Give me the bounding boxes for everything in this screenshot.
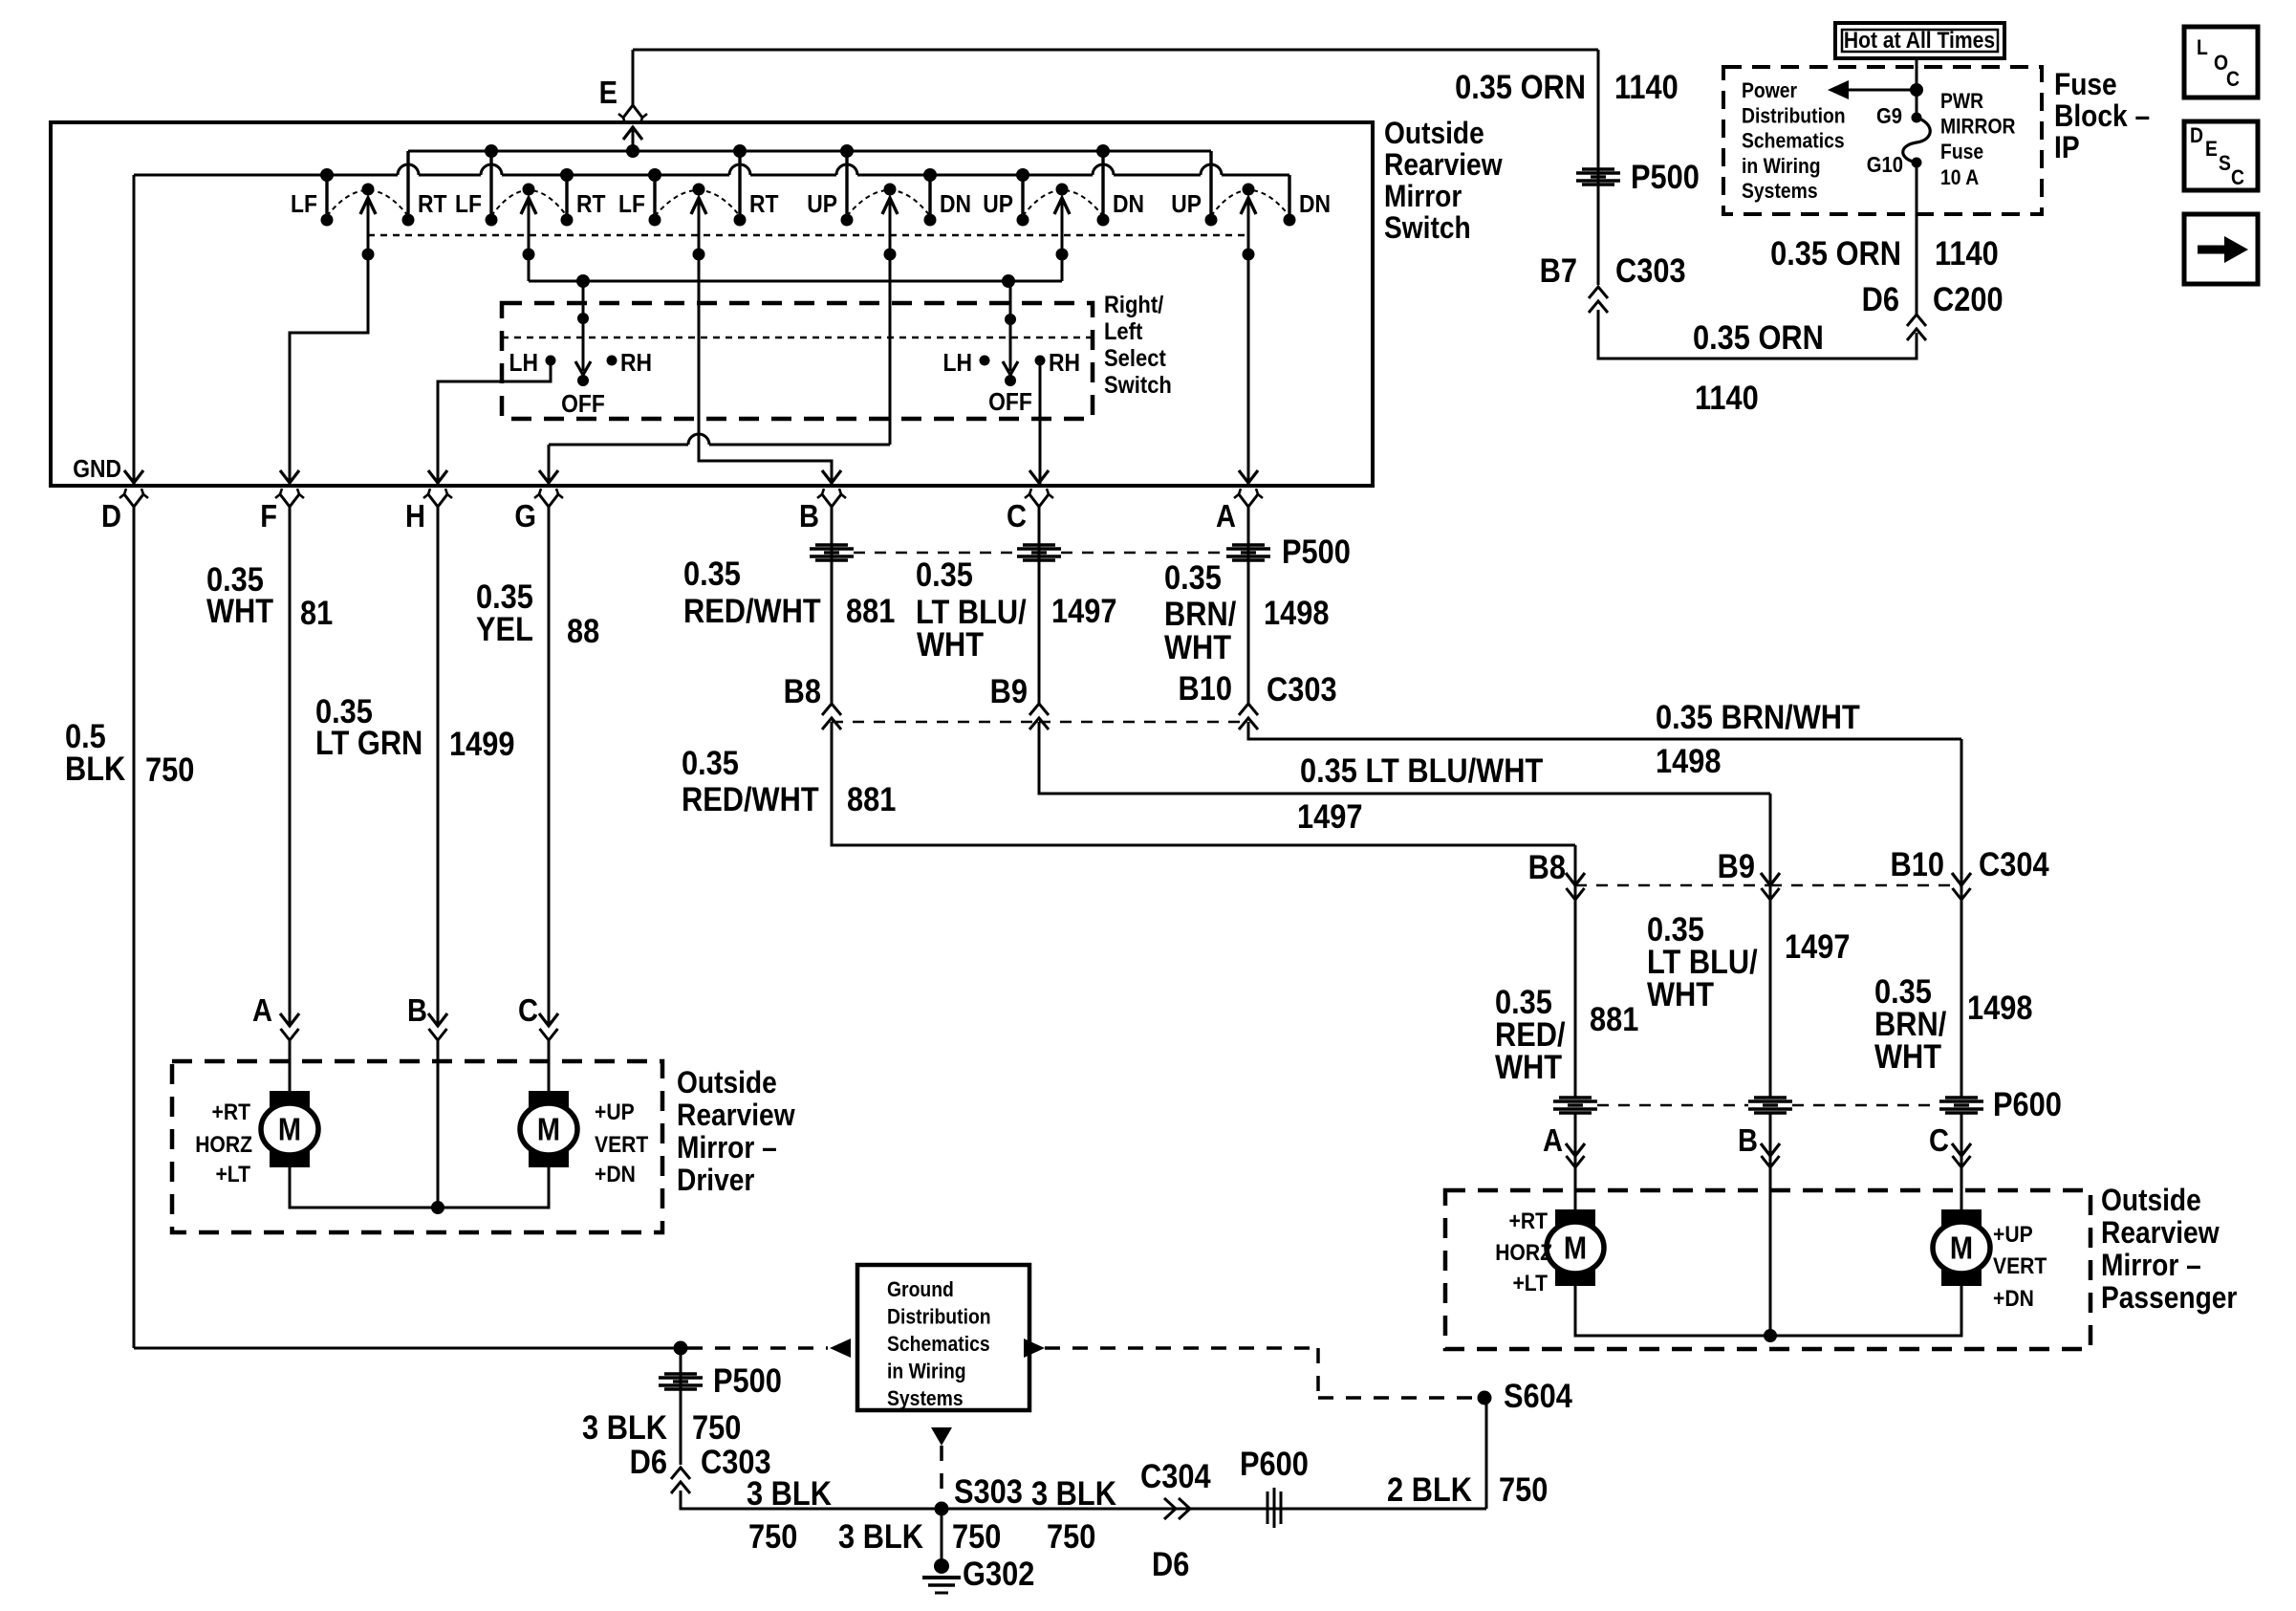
dashed mechanical linkage line bbox=[368, 234, 1248, 237]
svg-text:S604: S604 bbox=[1504, 1377, 1573, 1414]
svg-text:L: L bbox=[2197, 36, 2208, 59]
svg-text:Mirror –: Mirror – bbox=[2101, 1249, 2201, 1282]
wire: S303 to G302 bbox=[941, 1509, 943, 1560]
svg-text:B: B bbox=[407, 992, 427, 1028]
svg-text:Outside: Outside bbox=[2101, 1184, 2201, 1217]
connector P500 grommet on A bbox=[1232, 543, 1265, 546]
pin H: arrow at box bottom bbox=[428, 470, 447, 483]
fuse PWR MIRROR 10A element bbox=[1903, 118, 1931, 163]
svg-text:Block –: Block – bbox=[2054, 99, 2150, 133]
junction dot S303 bbox=[935, 1502, 949, 1516]
junction dot S604 bbox=[1478, 1391, 1492, 1405]
svg-text:88: 88 bbox=[567, 612, 599, 649]
junction dot hot feed bbox=[1910, 83, 1923, 97]
svg-text:GND: GND bbox=[73, 456, 121, 484]
svg-text:750: 750 bbox=[1499, 1470, 1548, 1508]
svg-text:Mirror –: Mirror – bbox=[677, 1131, 777, 1165]
svg-text:RT: RT bbox=[576, 191, 606, 219]
svg-text:0.35 ORN: 0.35 ORN bbox=[1770, 234, 1901, 272]
triangle arrow left bbox=[830, 1339, 851, 1358]
connector P500 grommet ORN bbox=[1582, 167, 1614, 170]
svg-text:Systems: Systems bbox=[887, 1387, 964, 1410]
svg-text:0.35: 0.35 bbox=[1164, 558, 1222, 596]
svg-text:HORZ: HORZ bbox=[195, 1132, 252, 1158]
svg-text:OFF: OFF bbox=[988, 389, 1032, 417]
wire: passenger C wire below P600 bbox=[1960, 1113, 1963, 1209]
motor M3 passenger horizontal bbox=[1555, 1209, 1595, 1286]
svg-text:3 BLK: 3 BLK bbox=[1031, 1474, 1116, 1512]
switch pair 3: LF contact bar bbox=[653, 175, 656, 220]
svg-text:VERT: VERT bbox=[1993, 1253, 2047, 1279]
svg-text:RT: RT bbox=[749, 191, 779, 219]
svg-text:750: 750 bbox=[145, 751, 194, 788]
svg-text:B: B bbox=[799, 498, 819, 533]
svg-text:Schematics: Schematics bbox=[887, 1333, 990, 1356]
switch pair 4: wiper pivot arrow bbox=[884, 184, 897, 196]
svg-text:750: 750 bbox=[692, 1408, 741, 1446]
svg-text:A: A bbox=[252, 992, 272, 1028]
svg-text:G: G bbox=[514, 498, 536, 533]
pin G: arrow at box bottom bbox=[539, 470, 558, 483]
wire: B8 vertical to P600 bbox=[1574, 845, 1577, 1098]
switch pair 2: RT contact bar bbox=[565, 175, 568, 220]
svg-text:3 BLK: 3 BLK bbox=[747, 1474, 832, 1512]
switch pair 4: DN contact bar bbox=[928, 175, 931, 220]
svg-text:P500: P500 bbox=[1631, 158, 1700, 195]
svg-text:VERT: VERT bbox=[595, 1132, 648, 1158]
svg-text:WHT: WHT bbox=[206, 592, 273, 629]
svg-text:1498: 1498 bbox=[1264, 594, 1329, 631]
svg-text:M: M bbox=[1950, 1230, 1973, 1266]
connector C303 chevrons B7 bbox=[1589, 287, 1608, 298]
svg-text:Driver: Driver bbox=[677, 1164, 755, 1197]
svg-text:Select: Select bbox=[1104, 345, 1166, 372]
svg-text:+LT: +LT bbox=[1512, 1271, 1548, 1296]
svg-text:81: 81 bbox=[300, 594, 333, 631]
pin H: connector fork bbox=[428, 494, 438, 507]
wire: pivot5 shaft down to select common line bbox=[1061, 198, 1064, 281]
svg-text:750: 750 bbox=[952, 1517, 1001, 1555]
svg-text:G9: G9 bbox=[1876, 103, 1902, 129]
motor M4 passenger vertical bbox=[1941, 1209, 1982, 1286]
svg-text:0.35: 0.35 bbox=[682, 744, 739, 781]
svg-text:Rearview: Rearview bbox=[2101, 1216, 2220, 1250]
svg-text:P500: P500 bbox=[713, 1361, 782, 1399]
svg-text:BLK: BLK bbox=[65, 750, 125, 787]
svg-text:C: C bbox=[2226, 68, 2240, 91]
switch pair 1: RT contact bar bbox=[406, 151, 409, 220]
svg-text:UP: UP bbox=[1171, 191, 1202, 219]
svg-text:WHT: WHT bbox=[1874, 1037, 1941, 1075]
svg-text:WHT: WHT bbox=[1647, 975, 1714, 1012]
svg-text:Distribution: Distribution bbox=[887, 1305, 991, 1328]
connector P500 grommet on B bbox=[815, 543, 848, 546]
svg-text:3 BLK: 3 BLK bbox=[838, 1517, 923, 1555]
svg-text:MIRROR: MIRROR bbox=[1940, 115, 2016, 138]
svg-text:C: C bbox=[1929, 1122, 1949, 1158]
wire: ORN vertical to fuse block G10 bbox=[1916, 214, 1918, 315]
svg-text:A: A bbox=[1216, 498, 1236, 533]
wire: BRN WHT 1498 run to B10 C304 bbox=[1248, 722, 1961, 739]
svg-text:Systems: Systems bbox=[1742, 180, 1818, 203]
svg-text:B9: B9 bbox=[990, 672, 1028, 709]
switch pair 1: dashed contact arc bbox=[327, 190, 408, 216]
wire: ORN jog to fuse block bbox=[1598, 310, 1917, 359]
C304 arrows B9 bbox=[1761, 873, 1780, 885]
svg-text:D6: D6 bbox=[630, 1443, 667, 1480]
pin F: arrow at box bottom bbox=[280, 470, 299, 483]
wire: 0.35 ORN from top run down through P500 bbox=[1597, 50, 1600, 285]
svg-text:Rearview: Rearview bbox=[1384, 148, 1503, 182]
svg-text:F: F bbox=[260, 498, 277, 533]
svg-text:750: 750 bbox=[1047, 1517, 1095, 1555]
svg-text:in Wiring: in Wiring bbox=[887, 1360, 966, 1382]
svg-text:+RT: +RT bbox=[1509, 1208, 1549, 1234]
connector C303 chevrons D6 ground bbox=[671, 1468, 690, 1479]
wire: passenger A wire below P600 bbox=[1574, 1113, 1577, 1209]
wire: E exit vertical and top run bbox=[632, 50, 635, 105]
svg-text:B8: B8 bbox=[784, 672, 821, 709]
svg-text:B7: B7 bbox=[1540, 251, 1577, 289]
passenger pin B: arrow and chevron bbox=[1761, 1143, 1780, 1156]
wire: driver motors common link bbox=[290, 1167, 549, 1208]
switch pair 5: DN contact bar bbox=[1101, 151, 1104, 220]
svg-text:LF: LF bbox=[291, 191, 317, 219]
wire: pivot3 shaft to B exit bbox=[699, 198, 832, 484]
svg-text:Switch: Switch bbox=[1384, 211, 1471, 245]
svg-text:Fuse: Fuse bbox=[1940, 141, 1983, 163]
wire: pivot6 shaft to A exit bbox=[1247, 198, 1250, 484]
box: Outside Rearview Mirror Switch outline bbox=[51, 122, 1373, 486]
pin D: connector fork bbox=[124, 494, 134, 507]
svg-text:2 BLK: 2 BLK bbox=[1387, 1470, 1472, 1508]
arrow at E into box top bbox=[623, 127, 642, 140]
switch pair 3: RT contact bar bbox=[738, 151, 741, 220]
connector P500 grommet on C bbox=[1023, 543, 1055, 546]
wire: left select LH to H exit bbox=[438, 365, 551, 484]
switch pair 2: dashed contact arc bbox=[491, 190, 567, 216]
switch pair 5: UP contact bar bbox=[1021, 175, 1024, 220]
svg-text:10 A: 10 A bbox=[1940, 166, 1979, 189]
wire: hot feed into fuse block bbox=[1916, 58, 1918, 118]
connector C303 chevrons B8 bbox=[822, 704, 841, 715]
dashed line C304 row bbox=[1575, 884, 1770, 887]
svg-text:C200: C200 bbox=[1933, 280, 2004, 317]
wire: bus1 horizontal y=158 bbox=[408, 150, 1211, 153]
wire: G10 to fuse box bottom bbox=[1916, 163, 1918, 216]
svg-text:+UP: +UP bbox=[595, 1099, 635, 1125]
svg-text:+UP: +UP bbox=[1993, 1222, 2033, 1248]
svg-text:M: M bbox=[1564, 1230, 1587, 1266]
box: Hot at All Times double box bbox=[1835, 23, 2004, 58]
pin A: connector fork bbox=[1239, 494, 1248, 507]
wire: pin wire x=1306 from box to C303 bbox=[1247, 507, 1250, 704]
junction dot at P500 ground bbox=[674, 1341, 688, 1356]
svg-text:G302: G302 bbox=[963, 1555, 1034, 1592]
dashed ground distribution link left bbox=[687, 1346, 828, 1350]
svg-text:WHT: WHT bbox=[1164, 628, 1231, 665]
left select: LH contact bbox=[546, 356, 556, 366]
wire: B9 vertical to P600 bbox=[1769, 794, 1772, 1098]
svg-text:Fuse: Fuse bbox=[2054, 68, 2117, 101]
wire: LT BLU WHT 1497 run to B9 C304 bbox=[1039, 722, 1770, 794]
svg-text:B9: B9 bbox=[1718, 847, 1755, 884]
svg-text:LF: LF bbox=[618, 191, 645, 219]
svg-text:881: 881 bbox=[847, 780, 896, 817]
svg-text:1497: 1497 bbox=[1051, 592, 1116, 629]
wire: H 1499 down bbox=[437, 507, 440, 1024]
svg-text:Right/: Right/ bbox=[1104, 292, 1164, 318]
svg-text:G10: G10 bbox=[1867, 152, 1903, 178]
svg-text:PWR: PWR bbox=[1940, 90, 1983, 113]
svg-text:D6: D6 bbox=[1862, 280, 1899, 317]
pin B: arrow at box bottom bbox=[822, 470, 841, 483]
switch pair 6: wiper pivot arrow bbox=[1243, 184, 1255, 196]
svg-text:+RT: +RT bbox=[212, 1099, 251, 1125]
svg-text:+DN: +DN bbox=[595, 1162, 636, 1187]
node G10 dot bbox=[1912, 158, 1922, 168]
wire: B10 vertical to P600 bbox=[1960, 739, 1963, 1098]
svg-text:D: D bbox=[101, 498, 121, 533]
switch pair 1: wiper pivot arrow bbox=[362, 184, 375, 196]
svg-text:0.35 ORN: 0.35 ORN bbox=[1455, 68, 1586, 105]
box: Right/Left Select Switch dashed outline bbox=[502, 303, 1093, 419]
wire: pivot1 shaft to F exit bbox=[290, 198, 368, 484]
svg-text:Switch: Switch bbox=[1104, 372, 1172, 399]
wire: passenger B wire below P600 bbox=[1769, 1113, 1772, 1336]
svg-text:Distribution: Distribution bbox=[1742, 104, 1846, 127]
svg-text:Mirror: Mirror bbox=[1384, 180, 1462, 213]
switch pair 6: UP contact bar bbox=[1209, 151, 1212, 220]
wire: D 750 down bbox=[133, 507, 136, 1348]
svg-text:1498: 1498 bbox=[1656, 742, 1721, 779]
driver mirror pin C: arrow and chevron bbox=[539, 1013, 558, 1026]
junction dot driver link bbox=[431, 1201, 444, 1214]
connector P600 inline on bottom run bbox=[1267, 1491, 1269, 1524]
svg-text:LF: LF bbox=[455, 191, 482, 219]
svg-text:1140: 1140 bbox=[1614, 68, 1679, 105]
svg-text:+LT: +LT bbox=[215, 1162, 250, 1187]
dashed line P600 row bbox=[1597, 1104, 1748, 1107]
svg-text:H: H bbox=[405, 498, 425, 533]
select switch inner dashed line bbox=[502, 337, 1093, 339]
wire: pin wire x=1087 from box to C303 bbox=[1038, 507, 1041, 704]
svg-text:Rearview: Rearview bbox=[677, 1099, 795, 1132]
box: DESC bbox=[2184, 121, 2258, 190]
svg-text:HORZ: HORZ bbox=[1495, 1240, 1552, 1266]
triangle arrow right bbox=[1024, 1339, 1045, 1358]
box: Outside Rearview Mirror Passenger dashed outline bbox=[1445, 1190, 2090, 1349]
switch pair 2: LF contact bar bbox=[489, 151, 492, 220]
svg-text:3 BLK: 3 BLK bbox=[582, 1408, 667, 1446]
wire: right select RH to C exit bbox=[1039, 365, 1042, 484]
passenger pin C: arrow and chevron bbox=[1952, 1143, 1971, 1156]
svg-text:E: E bbox=[599, 75, 617, 110]
wire: bus2 horizontal y=183 with hops bbox=[134, 174, 398, 177]
svg-text:1497: 1497 bbox=[1297, 797, 1362, 835]
wire: ground below P500 bbox=[680, 1348, 682, 1465]
svg-text:1497: 1497 bbox=[1785, 927, 1850, 965]
svg-text:P600: P600 bbox=[1240, 1445, 1309, 1482]
wire: pin wire x=870 from box to C303 bbox=[831, 507, 834, 704]
svg-text:C303: C303 bbox=[1615, 251, 1686, 289]
switch pair 6: DN contact bar bbox=[1288, 175, 1290, 220]
C304 arrows B8 bbox=[1566, 873, 1585, 885]
pin D: arrow at box bottom bbox=[124, 470, 143, 483]
svg-text:WHT: WHT bbox=[1495, 1048, 1562, 1085]
pin F: connector fork bbox=[280, 494, 290, 507]
svg-text:M: M bbox=[278, 1112, 301, 1147]
svg-text:Passenger: Passenger bbox=[2101, 1281, 2238, 1315]
svg-text:C: C bbox=[518, 992, 538, 1028]
box: Outside Rearview Mirror Driver dashed outline bbox=[172, 1061, 662, 1232]
switch pair 5: dashed contact arc bbox=[1023, 190, 1103, 216]
dashed line P500 row bbox=[854, 552, 1017, 555]
svg-text:B10: B10 bbox=[1891, 845, 1944, 882]
driver mirror pin A: arrow and chevron bbox=[280, 1013, 299, 1026]
svg-text:P500: P500 bbox=[1282, 533, 1351, 570]
wire: pivot4 shaft to G exit with hop bbox=[889, 198, 892, 445]
svg-text:881: 881 bbox=[846, 592, 895, 629]
svg-text:D: D bbox=[2190, 124, 2203, 147]
wire: riser to S604 bbox=[1485, 1398, 1488, 1509]
connector P600 grommet C bbox=[1945, 1096, 1978, 1099]
svg-text:Ground: Ground bbox=[887, 1278, 954, 1301]
wire: ground run D to P500 bbox=[134, 1347, 681, 1350]
svg-text:B: B bbox=[1738, 1122, 1758, 1158]
box: LOC bbox=[2184, 27, 2258, 98]
svg-text:A: A bbox=[1543, 1122, 1563, 1158]
svg-text:0.35: 0.35 bbox=[683, 555, 741, 592]
svg-text:DN: DN bbox=[1113, 191, 1144, 219]
junction dot right OFF feed bbox=[1002, 274, 1015, 288]
junction dot left OFF feed bbox=[576, 274, 590, 288]
connector P500 grommet ground bbox=[664, 1372, 697, 1375]
wire: GND bus2 left end to D exit bbox=[133, 175, 136, 484]
wire: G 88 down bbox=[548, 507, 551, 1024]
svg-text:1498: 1498 bbox=[1967, 989, 2032, 1026]
right select: LH contact bbox=[980, 356, 990, 366]
junction dots on bus1 bbox=[485, 144, 498, 158]
left select: OFF wiper arm bbox=[582, 281, 585, 371]
pin B: connector fork bbox=[822, 494, 832, 507]
wire: ground to bottom run bbox=[681, 1491, 1486, 1509]
triangle arrow down to S303 bbox=[931, 1427, 952, 1446]
svg-text:S303: S303 bbox=[954, 1472, 1023, 1510]
svg-text:881: 881 bbox=[1590, 1000, 1638, 1037]
svg-text:M: M bbox=[537, 1112, 560, 1147]
connector P600 grommet A bbox=[1559, 1096, 1592, 1099]
svg-text:DN: DN bbox=[1299, 191, 1331, 219]
svg-text:C: C bbox=[1007, 498, 1027, 533]
junction dots on pivot shafts below linkage bbox=[362, 249, 375, 261]
svg-text:Outside: Outside bbox=[677, 1066, 777, 1099]
passenger pin A: arrow and chevron bbox=[1566, 1143, 1585, 1156]
switch pair 4: dashed contact arc bbox=[847, 190, 930, 216]
svg-text:B10: B10 bbox=[1179, 669, 1232, 707]
svg-text:750: 750 bbox=[748, 1517, 797, 1555]
switch pair 3: dashed contact arc bbox=[655, 190, 740, 216]
wire: pivot2 shaft down to select common line bbox=[528, 198, 531, 281]
svg-text:IP: IP bbox=[2054, 131, 2080, 164]
node G9 dot bbox=[1912, 113, 1922, 123]
svg-text:1140: 1140 bbox=[1695, 379, 1759, 416]
right select: RH contact bbox=[1035, 356, 1046, 366]
svg-text:RH: RH bbox=[620, 350, 652, 378]
svg-text:DN: DN bbox=[940, 191, 971, 219]
connector C304 chevrons on bottom run bbox=[1164, 1498, 1176, 1519]
dashed link to S303 bbox=[940, 1446, 943, 1501]
svg-text:WHT: WHT bbox=[917, 625, 984, 663]
svg-text:C304: C304 bbox=[1979, 845, 2049, 882]
arrow glyph bbox=[2198, 246, 2224, 254]
switch pair 2: wiper pivot arrow bbox=[523, 184, 535, 196]
left select: RH contact bbox=[607, 356, 617, 366]
pin C: arrow at box bottom bbox=[1029, 470, 1049, 483]
svg-text:RH: RH bbox=[1049, 350, 1080, 378]
switch pair 3: wiper pivot arrow bbox=[693, 184, 705, 196]
switch pair 1: LF contact bar bbox=[325, 175, 328, 220]
svg-text:Schematics: Schematics bbox=[1742, 129, 1845, 152]
svg-text:RED/WHT: RED/WHT bbox=[682, 780, 819, 817]
box: Fuse Block IP dashed outline bbox=[1723, 67, 2042, 214]
svg-text:0.35 BRN/WHT: 0.35 BRN/WHT bbox=[1656, 698, 1860, 735]
junction dot passenger link bbox=[1764, 1329, 1777, 1342]
svg-text:S: S bbox=[2219, 152, 2231, 175]
svg-text:C303: C303 bbox=[1267, 670, 1337, 708]
switch pair 5: wiper pivot arrow bbox=[1056, 184, 1069, 196]
svg-text:0.35 ORN: 0.35 ORN bbox=[1693, 318, 1824, 356]
motor M1 driver horizontal bbox=[270, 1091, 310, 1167]
svg-text:C304: C304 bbox=[1140, 1457, 1211, 1494]
junction dots on bus2 bbox=[320, 168, 334, 182]
driver mirror pin B: arrow and chevron bbox=[428, 1013, 447, 1026]
svg-text:E: E bbox=[2205, 138, 2218, 161]
svg-text:Left: Left bbox=[1104, 318, 1142, 345]
C304 arrows B10 bbox=[1952, 873, 1971, 885]
svg-text:UP: UP bbox=[983, 191, 1013, 219]
svg-text:OFF: OFF bbox=[561, 391, 605, 419]
wire: F 81 down bbox=[289, 507, 292, 1024]
wire: RED WHT 881 run to B8 C304 bbox=[832, 722, 1575, 845]
svg-text:RED/WHT: RED/WHT bbox=[683, 592, 821, 629]
svg-text:Hot at All Times: Hot at All Times bbox=[1844, 28, 1995, 54]
svg-text:Outside: Outside bbox=[1384, 117, 1484, 150]
box: Ground Distribution Schematics in Wiring Systems bbox=[857, 1265, 1029, 1410]
svg-text:P600: P600 bbox=[1993, 1085, 2062, 1122]
pin C: connector fork bbox=[1029, 494, 1039, 507]
svg-text:0.35: 0.35 bbox=[916, 555, 973, 593]
svg-text:YEL: YEL bbox=[476, 610, 533, 647]
switch pair 6: dashed contact arc bbox=[1211, 190, 1289, 216]
pin A: arrow at box bottom bbox=[1239, 470, 1258, 483]
ground G302 symbol bbox=[934, 1558, 949, 1574]
switch pair 4: UP contact bar bbox=[845, 151, 848, 220]
svg-text:B8: B8 bbox=[1528, 848, 1566, 885]
svg-text:1140: 1140 bbox=[1935, 234, 1999, 272]
wire: select common line y=294 bbox=[529, 280, 1062, 283]
box: arrow bbox=[2184, 214, 2258, 284]
svg-text:LH: LH bbox=[509, 350, 538, 378]
connector P600 grommet B bbox=[1754, 1096, 1787, 1099]
svg-text:LT GRN: LT GRN bbox=[315, 724, 422, 761]
connector C303 chevrons B10 bbox=[1239, 704, 1258, 715]
svg-text:RT: RT bbox=[418, 191, 447, 219]
svg-text:D6: D6 bbox=[1152, 1545, 1189, 1582]
connector fork at E bbox=[623, 105, 633, 118]
dashed ground distribution link right bbox=[1045, 1346, 1318, 1350]
svg-text:UP: UP bbox=[807, 191, 837, 219]
